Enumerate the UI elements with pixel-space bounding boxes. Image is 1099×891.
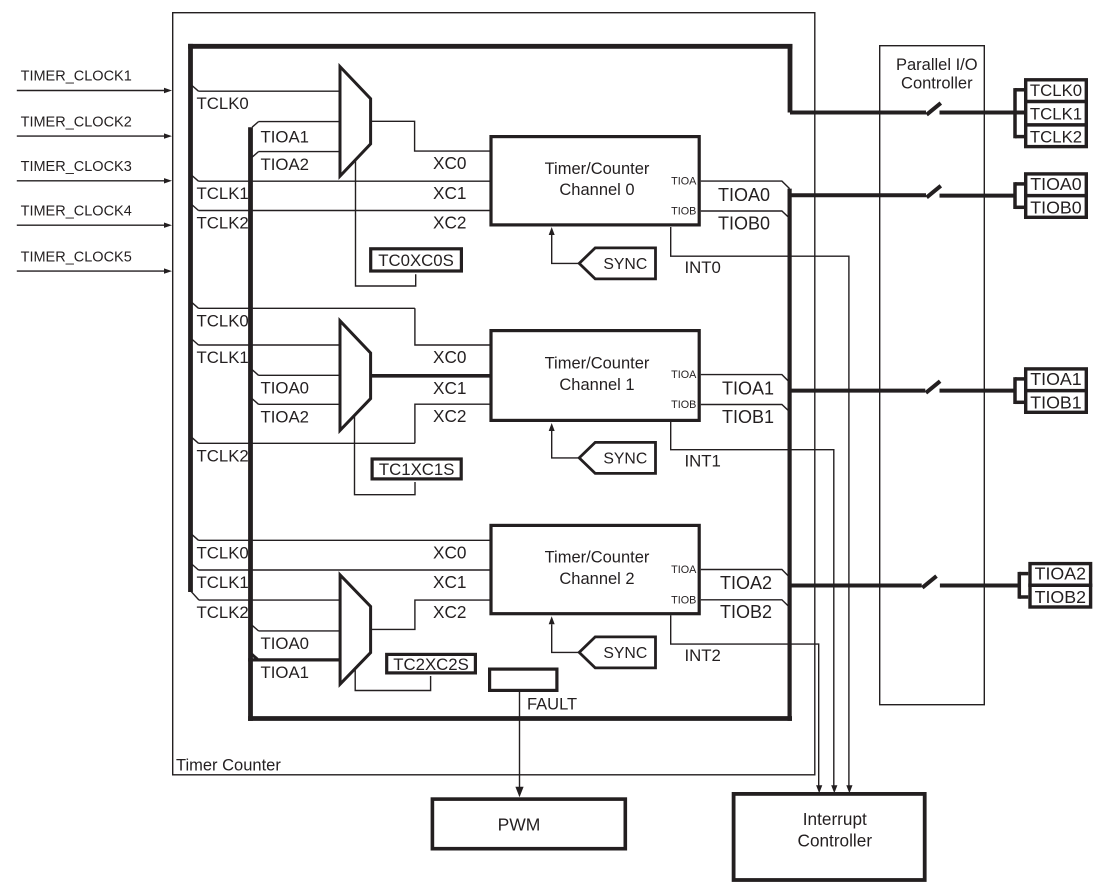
svg-text:TIOA0: TIOA0 — [261, 634, 310, 653]
svg-text:SYNC: SYNC — [603, 256, 647, 273]
svg-text:TCLK1: TCLK1 — [197, 348, 249, 367]
svg-text:XC2: XC2 — [433, 213, 466, 233]
svg-text:Timer/Counter: Timer/Counter — [545, 355, 650, 373]
svg-text:XC0: XC0 — [433, 347, 466, 367]
svg-text:TC2XC2S: TC2XC2S — [393, 655, 469, 674]
svg-text:INT1: INT1 — [685, 452, 721, 471]
svg-text:TIOB0: TIOB0 — [718, 213, 770, 233]
svg-text:TIOA2: TIOA2 — [261, 408, 310, 427]
svg-text:TCLK2: TCLK2 — [197, 214, 249, 233]
svg-text:TC0XC0S: TC0XC0S — [378, 251, 454, 270]
svg-text:Timer/Counter: Timer/Counter — [545, 160, 650, 178]
svg-text:Timer Counter: Timer Counter — [176, 757, 281, 775]
svg-text:TIOA: TIOA — [671, 176, 697, 188]
svg-text:TIOA1: TIOA1 — [1030, 369, 1081, 389]
svg-text:TIMER_CLOCK4: TIMER_CLOCK4 — [21, 203, 132, 219]
svg-text:INT2: INT2 — [685, 646, 721, 665]
svg-text:Controller: Controller — [798, 831, 873, 851]
svg-text:TIOA2: TIOA2 — [720, 573, 772, 593]
svg-text:SYNC: SYNC — [603, 645, 647, 662]
svg-text:TC1XC1S: TC1XC1S — [379, 460, 455, 479]
svg-text:TCLK0: TCLK0 — [197, 311, 249, 330]
svg-text:Interrupt: Interrupt — [803, 809, 867, 829]
svg-text:Controller: Controller — [901, 75, 973, 93]
svg-text:TIOA1: TIOA1 — [722, 379, 774, 399]
svg-text:TIOB2: TIOB2 — [1035, 587, 1086, 607]
svg-text:TCLK2: TCLK2 — [197, 446, 249, 465]
svg-text:PWM: PWM — [498, 814, 541, 834]
svg-text:TCLK0: TCLK0 — [197, 543, 249, 562]
svg-text:TCLK1: TCLK1 — [197, 184, 249, 203]
svg-text:TIOB2: TIOB2 — [720, 602, 772, 622]
svg-text:TIMER_CLOCK3: TIMER_CLOCK3 — [21, 159, 132, 175]
svg-text:TIOB: TIOB — [671, 206, 696, 218]
svg-text:TIMER_CLOCK2: TIMER_CLOCK2 — [21, 114, 132, 130]
svg-text:TIOA0: TIOA0 — [261, 379, 310, 398]
svg-text:XC1: XC1 — [433, 572, 466, 592]
svg-text:INT0: INT0 — [685, 258, 721, 277]
svg-text:TIMER_CLOCK1: TIMER_CLOCK1 — [21, 69, 132, 85]
svg-text:Parallel I/O: Parallel I/O — [896, 56, 978, 74]
svg-text:Channel 1: Channel 1 — [559, 376, 634, 394]
svg-text:TIOA1: TIOA1 — [261, 127, 310, 146]
svg-text:TCLK2: TCLK2 — [197, 603, 249, 622]
svg-text:TIOB: TIOB — [671, 399, 696, 411]
svg-text:TIOA0: TIOA0 — [1030, 174, 1081, 194]
svg-text:TIOA: TIOA — [671, 564, 697, 576]
svg-text:TIOB: TIOB — [671, 594, 696, 606]
svg-text:TCLK2: TCLK2 — [1030, 128, 1082, 147]
svg-text:TIOB1: TIOB1 — [1030, 392, 1081, 412]
svg-text:XC0: XC0 — [433, 153, 466, 173]
svg-text:Timer/Counter: Timer/Counter — [545, 549, 650, 567]
svg-text:TIOA0: TIOA0 — [718, 185, 770, 205]
svg-text:TIOA2: TIOA2 — [1035, 564, 1086, 584]
svg-text:TIOB0: TIOB0 — [1030, 197, 1081, 217]
svg-text:TIMER_CLOCK5: TIMER_CLOCK5 — [21, 249, 132, 265]
svg-text:FAULT: FAULT — [527, 696, 577, 714]
svg-text:TIOA1: TIOA1 — [261, 663, 310, 682]
svg-text:XC1: XC1 — [433, 183, 466, 203]
svg-text:Channel 0: Channel 0 — [559, 181, 634, 199]
svg-text:XC1: XC1 — [433, 378, 466, 398]
svg-text:XC2: XC2 — [433, 406, 466, 426]
svg-text:TCLK0: TCLK0 — [197, 94, 249, 113]
svg-text:TCLK1: TCLK1 — [1030, 104, 1082, 123]
svg-text:TIOA: TIOA — [671, 369, 697, 381]
svg-text:Channel 2: Channel 2 — [559, 570, 634, 588]
svg-text:TIOA2: TIOA2 — [261, 155, 310, 174]
svg-text:TCLK0: TCLK0 — [1030, 81, 1082, 100]
svg-text:TIOB1: TIOB1 — [722, 407, 774, 427]
svg-text:SYNC: SYNC — [603, 451, 647, 468]
svg-text:TCLK1: TCLK1 — [197, 573, 249, 592]
svg-text:XC0: XC0 — [433, 542, 466, 562]
svg-text:XC2: XC2 — [433, 602, 466, 622]
